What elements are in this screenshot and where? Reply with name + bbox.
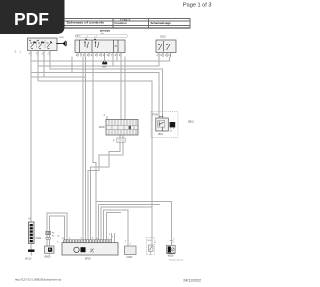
svg-text:Page 1 of 3: Page 1 of 3 xyxy=(183,3,212,9)
battery/supply icon BB05 xyxy=(102,61,108,68)
svg-text:C001: C001 xyxy=(36,237,42,240)
wire bus y66 from S1 pin to S2 pin xyxy=(37,56,39,81)
header table xyxy=(5,18,190,28)
bottom fusebox U2 xyxy=(62,238,118,260)
svg-text:C806: C806 xyxy=(59,37,65,39)
svg-text:1504: 1504 xyxy=(158,133,164,136)
horn H1 icon xyxy=(56,41,67,47)
wire route short branch xyxy=(106,213,121,240)
wire route open branch xyxy=(99,204,161,240)
wire left rail to connector X2 xyxy=(30,61,32,222)
wire U1 pin stub to bus y61 xyxy=(116,56,118,61)
wire strip stub top xyxy=(106,116,108,120)
ground G2 below X2 xyxy=(25,244,35,261)
wire fuse loop inner xyxy=(49,216,64,240)
wire fuse2 to ring xyxy=(48,235,50,237)
PDF badge xyxy=(0,0,65,34)
switch S3 (dashed, bottom) xyxy=(146,237,157,254)
S1 pin stubs and numbers xyxy=(31,51,50,57)
wire bus y72 to relay xyxy=(71,57,73,73)
black square inside U2 xyxy=(81,247,86,252)
svg-text:PDF: PDF xyxy=(14,9,49,29)
svg-text:MC10: MC10 xyxy=(25,258,32,261)
wire U1 long vertical 1 xyxy=(82,57,84,240)
connector rings xyxy=(46,237,48,239)
wire route to switch S3 line xyxy=(101,207,152,240)
wire bus y69 from S1 pin to relay xyxy=(50,56,162,118)
U2 pin numbers xyxy=(57,234,114,244)
svg-text:M200: M200 xyxy=(168,255,174,257)
U2 pin comb row xyxy=(64,240,112,243)
zone label frame above U1 xyxy=(76,34,128,37)
wire strip feed 2 xyxy=(124,57,126,120)
svg-text:2610: 2610 xyxy=(160,35,166,39)
wire U1 pin drop with jog xyxy=(93,57,96,240)
wire bus y77 xyxy=(43,56,45,77)
svg-text:Schemas of controls: Schemas of controls xyxy=(67,21,105,25)
motor M1 (bottom, mid-right) xyxy=(125,241,137,259)
wire bus y81 to switch S3 xyxy=(38,81,152,245)
svg-text:http://127.0.0.1:8092/5dc/impr: http://127.0.0.1:8092/5dc/imprimer.do xyxy=(15,278,62,282)
fuse F2 xyxy=(48,231,50,234)
connector X2 (vertical, left bottom) xyxy=(28,218,42,244)
wire U1 long vertical 2 xyxy=(85,57,87,240)
fuse F1 xyxy=(46,231,48,234)
svg-text:nnnnn-n nnn nn: nnnnn-n nnn nn xyxy=(169,260,183,262)
wire bus y61 from S1 pin to S2 pin xyxy=(31,56,170,61)
wire rings to battery unit xyxy=(46,240,48,246)
svg-text:PSF1: PSF1 xyxy=(153,114,160,117)
connector strip X1 xyxy=(99,114,139,143)
switch unit S1 (control stalk, top-left) xyxy=(28,37,65,51)
svg-text:Schema/usage: Schema/usage xyxy=(151,21,172,25)
wire route to motor M1 xyxy=(104,210,129,246)
fuse box PSF1 (dashed) xyxy=(151,112,178,138)
svg-text:Fonction: Fonction xyxy=(115,21,127,25)
wire fuse loop outer xyxy=(47,213,67,240)
svg-text:CA00: CA00 xyxy=(75,35,81,38)
svg-text:BB00: BB00 xyxy=(45,256,52,259)
relay coil component (black) xyxy=(170,122,176,127)
wire route to pump M2 xyxy=(96,202,171,246)
svg-text:BB10: BB10 xyxy=(188,121,195,124)
control module U1 (top centre) xyxy=(75,35,125,53)
svg-text:24/11/2022: 24/11/2022 xyxy=(183,279,201,283)
header table text xyxy=(67,18,172,25)
wire fuse1 to ring xyxy=(46,235,48,237)
S2 pin stubs and numbers xyxy=(159,53,171,58)
wire U1 pin stub to bus y66 xyxy=(112,56,114,66)
indicator circle inside U2 xyxy=(74,247,79,252)
connector C002 below strip xyxy=(117,138,125,142)
U1 pin stubs and numbers xyxy=(78,53,121,57)
relay K1 xyxy=(156,118,169,131)
wire zigzag strip to pin (2) xyxy=(88,135,123,240)
pump M2 (bottom right, black) xyxy=(167,238,184,261)
svg-text:BF00: BF00 xyxy=(85,257,91,260)
wire bottom box stub b xyxy=(113,233,115,243)
wire zigzag strip to pin (1) xyxy=(91,135,121,240)
battery unit BB00 xyxy=(45,246,55,259)
switch unit S2 (top right) xyxy=(156,35,176,53)
svg-text:M100: M100 xyxy=(127,257,133,259)
small glyph inside U2 xyxy=(91,249,94,253)
wire bottom box stub a xyxy=(110,233,112,240)
svg-text:16NR: 16NR xyxy=(99,126,105,129)
wire ground stem xyxy=(104,57,106,62)
wire strip feed 1 xyxy=(120,57,122,120)
